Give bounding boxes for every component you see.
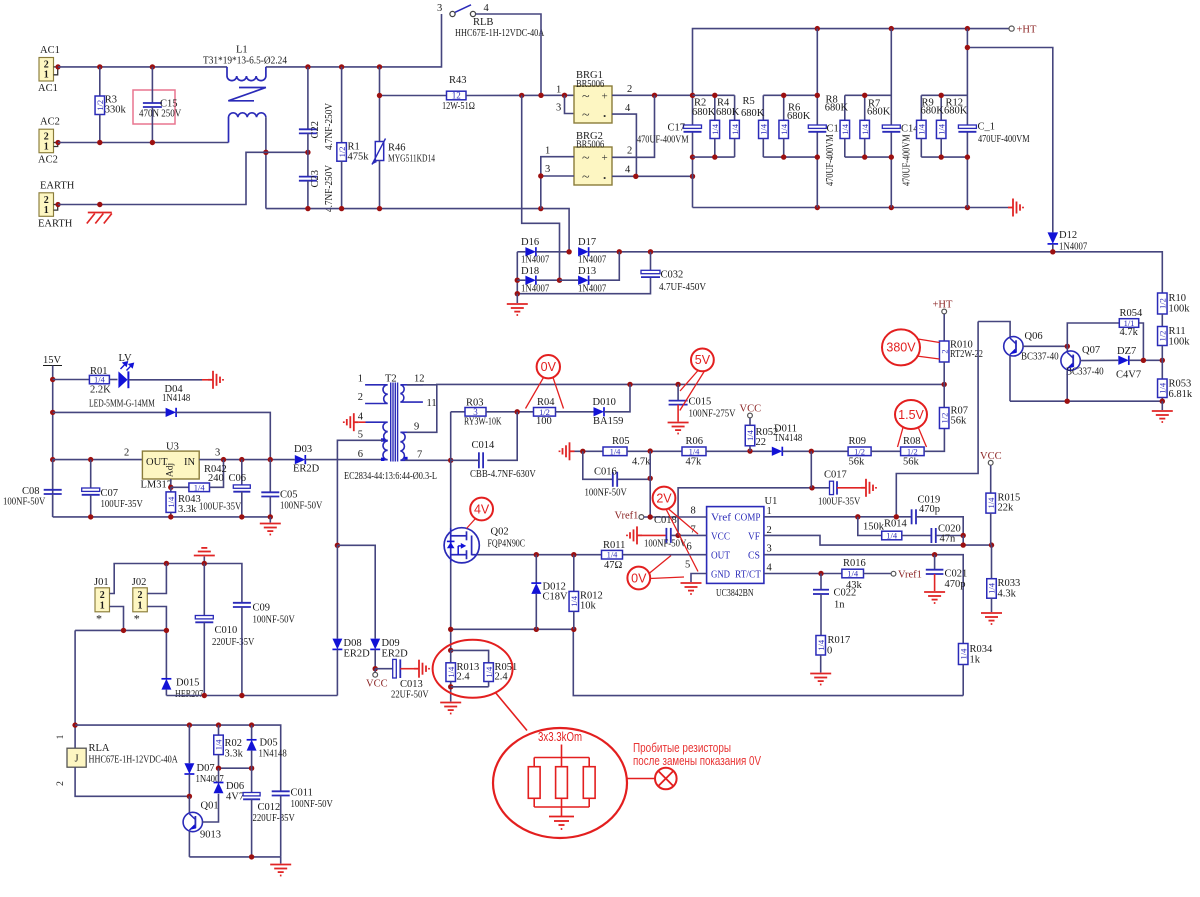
resistor R02: [218, 725, 220, 735]
resistor R07: [943, 384, 945, 407]
svg-text:FQP4N90C: FQP4N90C: [488, 538, 526, 549]
node row-R02: [216, 766, 221, 771]
node Q06b-Q07c: [1065, 344, 1070, 349]
svg-text:1/4: 1/4: [917, 123, 927, 135]
terminal +HT: [1009, 26, 1014, 31]
wire R02-D05 row: [219, 767, 252, 769]
node botrail-C13: [815, 205, 820, 210]
resistor R4: [734, 95, 736, 120]
svg-text:C015: C015: [689, 397, 712, 408]
svg-text:1/4: 1/4: [569, 595, 579, 607]
resistor R9a: [920, 95, 922, 120]
connector AC1: [39, 58, 54, 82]
svg-text:9: 9: [414, 422, 419, 433]
svg-text:7: 7: [417, 450, 422, 461]
wire 15V rail: [52, 366, 54, 517]
svg-text:R034: R034: [970, 644, 994, 655]
wire block top rail: [113, 564, 242, 603]
capacitor C13: [808, 125, 826, 128]
diode D04: [166, 408, 177, 417]
svg-text:+HT: +HT: [1017, 25, 1038, 36]
node C016-right: [648, 476, 653, 481]
svg-text:D18: D18: [521, 266, 539, 277]
resistor R051: [484, 663, 494, 682]
capacitor C016: [583, 451, 613, 479]
svg-text:4.7NF-250V: 4.7NF-250V: [324, 165, 335, 212]
wire AC1 rail: [58, 66, 227, 68]
capacitor C018: [666, 528, 670, 543]
node L1-jog: [263, 150, 268, 155]
svg-text:56k: 56k: [903, 457, 920, 468]
node VF-nodeX: [961, 542, 966, 547]
capacitor C032: [650, 252, 652, 270]
svg-text:VCC: VCC: [740, 404, 762, 415]
wire RLB to R43 node: [476, 14, 541, 95]
svg-text:0: 0: [827, 646, 832, 657]
node rail-R43: [377, 64, 382, 69]
diode D18: [517, 279, 525, 281]
svg-text:RLB: RLB: [473, 17, 493, 28]
svg-text:R014: R014: [884, 519, 908, 530]
diode D12: [1048, 232, 1059, 244]
resistor R033: [991, 545, 993, 579]
svg-text:R46: R46: [388, 143, 406, 154]
svg-text:AC2: AC2: [40, 117, 60, 128]
resistor R7a: [864, 95, 866, 120]
node R06-R052: [747, 448, 752, 453]
svg-text:11: 11: [427, 398, 437, 409]
wire sense bottom: [451, 686, 489, 688]
resistor R016: [842, 569, 864, 578]
resistor R10: [1158, 293, 1168, 314]
ground R05 left: [560, 442, 575, 460]
svg-text:C017: C017: [824, 470, 847, 481]
svg-text:Vref: Vref: [711, 513, 732, 524]
svg-text:после замены показания 0V: после замены показания 0V: [633, 754, 762, 768]
node row-D05: [249, 766, 254, 771]
svg-text:R11: R11: [1169, 326, 1186, 337]
svg-text:470p: 470p: [919, 504, 940, 515]
regulator U3 LM317: [142, 451, 199, 479]
node 0Vrow-R010: [942, 382, 947, 387]
node rail-R1: [339, 64, 344, 69]
svg-text:1/4: 1/4: [689, 446, 701, 456]
svg-text:D03: D03: [294, 444, 312, 455]
capacitor C013: [375, 668, 393, 670]
node R12-bot: [939, 154, 944, 159]
node C017-left: [809, 485, 814, 490]
svg-text:1/2: 1/2: [337, 147, 347, 158]
wire R054 net: [1067, 323, 1119, 346]
svg-text:1.5V: 1.5V: [898, 408, 924, 422]
node pin8-riser: [648, 514, 653, 519]
node C05-top: [268, 457, 273, 462]
diode D16: [517, 251, 525, 253]
svg-text:2.2K: 2.2K: [90, 385, 111, 396]
ground C018: [627, 526, 642, 544]
node R6-bot: [781, 154, 786, 159]
svg-text:VF: VF: [748, 532, 760, 543]
svg-text:R03: R03: [466, 398, 484, 409]
wire J01 pin1: [110, 607, 124, 631]
node D011-out: [809, 449, 814, 454]
svg-text:100k: 100k: [1169, 304, 1191, 315]
svg-text:4.7k: 4.7k: [1120, 327, 1139, 338]
svg-text:12: 12: [414, 374, 425, 385]
svg-text:Vref1: Vref1: [615, 511, 639, 522]
svg-text:EARTH: EARTH: [40, 180, 75, 191]
node C_1-mid-bot: [965, 154, 970, 159]
node C06-top: [239, 457, 244, 462]
capacitor C022: [820, 574, 822, 590]
node BRG14-join: [633, 174, 638, 179]
svg-text:1: 1: [767, 506, 772, 517]
ground R033: [981, 613, 1002, 624]
svg-text:6.81k: 6.81k: [1169, 389, 1193, 400]
diode D09: [370, 639, 380, 650]
wire RLA left riser: [74, 630, 76, 748]
resistor R1: [341, 67, 343, 143]
IC U1 UC3842BN: [707, 507, 764, 584]
node R43-jog: [519, 93, 524, 98]
capacitor C014: [479, 452, 483, 468]
svg-text:CS: CS: [748, 551, 760, 562]
connector J01: [95, 588, 110, 612]
node lineB-R46: [377, 206, 382, 211]
svg-text:VCC: VCC: [366, 679, 388, 690]
wire D04 row: [53, 411, 166, 413]
svg-text:HER207: HER207: [175, 689, 203, 700]
node bot-C07: [88, 514, 93, 519]
node C13-mid-top: [815, 93, 820, 98]
svg-text:C08: C08: [22, 486, 40, 497]
resistor R11: [1158, 327, 1168, 346]
svg-text:1N4007: 1N4007: [521, 284, 549, 295]
wire HT to D12: [967, 48, 1052, 233]
svg-text:3.3k: 3.3k: [178, 504, 197, 515]
wire block bottom rail: [166, 695, 337, 697]
diode D07: [188, 725, 190, 763]
svg-text:5: 5: [358, 430, 363, 441]
ground earth symbol: [87, 213, 112, 224]
svg-text:1/4: 1/4: [779, 123, 789, 135]
svg-text:5: 5: [685, 560, 690, 571]
resistor R3: [99, 67, 101, 96]
resistor R054: [1119, 319, 1138, 328]
capacitor C021: [934, 555, 936, 570]
node VF-R015: [989, 542, 994, 547]
connector AC2: [39, 129, 54, 153]
node sense-top: [448, 648, 453, 653]
node AC1-R3: [97, 64, 102, 69]
svg-text:D12: D12: [1059, 230, 1077, 241]
wire U3 adj: [170, 479, 172, 487]
wire Q02 source down: [450, 563, 452, 651]
wire J02 pin1: [147, 607, 166, 631]
annotation ellipse sense resistors: [433, 640, 513, 698]
capacitor C06: [241, 460, 243, 485]
bridge rectifier BRG2: [574, 147, 612, 185]
node R2-top: [712, 93, 717, 98]
svg-text:+: +: [602, 90, 608, 102]
node R6-top: [781, 93, 786, 98]
svg-text:1N4148: 1N4148: [162, 393, 190, 404]
node pin7-drain: [448, 458, 453, 463]
svg-text:L1: L1: [236, 45, 248, 56]
wire lineB AC2-filtered: [266, 209, 569, 252]
svg-text:C4V7: C4V7: [1116, 370, 1141, 381]
node R05-R06: [648, 448, 653, 453]
svg-text:J02: J02: [132, 577, 147, 588]
svg-text:1: 1: [138, 600, 143, 611]
svg-text:~: ~: [582, 170, 590, 185]
svg-text:475k: 475k: [348, 152, 370, 163]
capacitor C15: [133, 90, 175, 124]
ground relay block: [280, 857, 282, 864]
resistor R2: [714, 95, 716, 120]
terminal +HT mid: [942, 309, 947, 314]
resistor R5: [762, 95, 764, 120]
svg-text:Q01: Q01: [201, 801, 219, 812]
relay contact RLB: [450, 11, 455, 16]
svg-text:VCC: VCC: [980, 451, 1002, 462]
resistor R04: [534, 408, 556, 417]
svg-text:47k: 47k: [686, 457, 703, 468]
wire sense top: [451, 650, 489, 662]
svg-text:1/4: 1/4: [860, 123, 870, 135]
svg-text:1: 1: [100, 600, 105, 611]
zener D06: [214, 783, 224, 794]
wire BRG2 pins13 strap: [541, 157, 574, 209]
svg-text:1/4: 1/4: [816, 639, 826, 651]
svg-text:1/4: 1/4: [986, 497, 996, 509]
svg-text:100UF-35V: 100UF-35V: [101, 499, 144, 510]
wire D09 branch: [337, 545, 375, 638]
wire VCC riser to C017: [678, 488, 829, 536]
annotation lamp symbol: [627, 778, 655, 780]
capacitor C015: [677, 384, 679, 400]
svg-text:1: 1: [545, 146, 550, 157]
svg-text:1N4007: 1N4007: [578, 284, 606, 295]
svg-text:HHC67E-1H-12VDC-40A: HHC67E-1H-12VDC-40A: [455, 28, 545, 39]
wire emitter rail: [1010, 400, 1162, 402]
svg-text:3x3.3kOm: 3x3.3kOm: [538, 729, 582, 744]
wire CS row pin3: [764, 555, 963, 644]
wire R2R4 top: [693, 94, 735, 96]
resistor R08: [901, 447, 925, 456]
svg-text:C07: C07: [101, 488, 119, 499]
wire VF row pin2: [764, 535, 992, 545]
svg-text:1N4007: 1N4007: [578, 255, 606, 266]
svg-text:4: 4: [625, 103, 631, 114]
node 0Vrow-C015: [675, 382, 680, 387]
svg-text:2: 2: [56, 781, 66, 786]
node rail-D07: [187, 722, 192, 727]
svg-text:+HT: +HT: [933, 300, 954, 311]
node bot-R043: [168, 514, 173, 519]
svg-text:+: +: [602, 152, 608, 164]
svg-text:C_1: C_1: [978, 122, 996, 133]
svg-text:IN: IN: [184, 457, 195, 468]
resistor R05: [603, 447, 627, 456]
svg-text:680K: 680K: [787, 111, 811, 122]
node R042-up: [221, 457, 226, 462]
svg-text:1: 1: [56, 734, 66, 739]
svg-text:47n: 47n: [940, 534, 957, 545]
svg-text:C22: C22: [310, 121, 321, 139]
svg-text:U3: U3: [166, 441, 179, 452]
node R7a-bot: [862, 154, 867, 159]
node capbank-BRG: [690, 174, 695, 179]
svg-text:6: 6: [358, 449, 363, 460]
node mid-J01: [121, 628, 126, 633]
node OUT-D012: [534, 552, 539, 557]
wire 0V top row: [437, 383, 944, 385]
node R05-left: [580, 449, 585, 454]
resistor R034: [958, 644, 968, 665]
capacitor C010: [203, 564, 205, 616]
node 15V-main: [50, 457, 55, 462]
svg-text:100NF-275V: 100NF-275V: [689, 409, 736, 420]
svg-text:8: 8: [691, 506, 696, 517]
annotation 0V circle top: [537, 355, 560, 378]
svg-text:1/4: 1/4: [1158, 382, 1168, 394]
wire U3 out row: [199, 459, 295, 461]
svg-text:1: 1: [44, 70, 49, 81]
resistor R017: [816, 636, 826, 656]
wire OUT row pin6: [477, 554, 601, 556]
svg-text:C06: C06: [229, 473, 247, 484]
node rail-C22: [305, 64, 310, 69]
svg-text:R09: R09: [849, 436, 867, 447]
ground C013: [414, 660, 429, 678]
wire C17 rail: [692, 95, 694, 125]
resistor R052: [745, 425, 755, 446]
svg-text:1/4: 1/4: [886, 531, 898, 541]
node BRG2riser-top: [652, 93, 657, 98]
ground LED: [208, 371, 223, 389]
node rail-J02: [164, 561, 169, 566]
svg-text:22UF-50V: 22UF-50V: [391, 690, 429, 701]
capacitor C09: [233, 603, 251, 607]
capacitor C17: [684, 125, 702, 128]
svg-text:AC1: AC1: [40, 45, 60, 56]
node earth-gnd: [97, 202, 102, 207]
annotation 380V circle: [882, 329, 920, 365]
node R43-RLB: [538, 93, 543, 98]
svg-text:GND: GND: [711, 570, 730, 581]
svg-text:D09: D09: [382, 638, 400, 649]
svg-text:4: 4: [484, 3, 490, 14]
transformer T2 winding 9-7: [400, 432, 405, 460]
svg-text:1N4007: 1N4007: [1059, 242, 1087, 253]
svg-text:LV: LV: [119, 353, 132, 364]
node rail-C010: [202, 561, 207, 566]
svg-text:T31*19*13-6.5-Ø2.24: T31*19*13-6.5-Ø2.24: [203, 56, 288, 67]
wire CS sense return: [573, 629, 963, 695]
svg-text:470UF-400VM: 470UF-400VM: [637, 135, 689, 146]
svg-text:EC2834-44:13:6:44-Ø0.3-L: EC2834-44:13:6:44-Ø0.3-L: [344, 471, 437, 482]
svg-text:3.3k: 3.3k: [225, 749, 244, 760]
node jog-C22C23: [305, 150, 310, 155]
svg-text:Adj: Adj: [166, 463, 176, 477]
wire D16D18 anode strap: [516, 252, 518, 294]
svg-text:9013: 9013: [200, 830, 221, 841]
resistor R03: [450, 412, 452, 461]
svg-text:OUT: OUT: [711, 551, 731, 562]
svg-text:C010: C010: [215, 625, 238, 636]
svg-text:1n: 1n: [834, 600, 845, 611]
svg-text:J01: J01: [94, 577, 109, 588]
svg-text:AC2: AC2: [38, 155, 58, 166]
svg-text:1: 1: [358, 374, 363, 385]
wire R8R7 top: [845, 94, 892, 96]
terminal Vref1 left: [639, 515, 644, 520]
diode D015: [161, 679, 171, 690]
svg-text:4.7NF-250V: 4.7NF-250V: [324, 103, 335, 150]
capacitor C08: [52, 460, 54, 490]
wire R5R6 bottom: [763, 156, 817, 158]
svg-text:2: 2: [627, 84, 632, 95]
node lineB-BRG2: [538, 206, 543, 211]
node toprail-C13: [815, 26, 820, 31]
svg-text:.: .: [603, 105, 606, 120]
svg-text:ER2D: ER2D: [344, 649, 371, 660]
svg-text:C022: C022: [834, 588, 857, 599]
wire +HT top rail: [693, 29, 1010, 96]
transistor Q06: [1004, 337, 1023, 356]
ground D-block: [516, 294, 518, 303]
svg-text:15V: 15V: [43, 355, 62, 366]
annotation 1.5V circle: [895, 400, 927, 429]
wire Q06 base: [1023, 345, 1068, 347]
node C_1-HTtap: [965, 45, 970, 50]
svg-text:R06: R06: [686, 436, 704, 447]
wire R9R12 top: [921, 94, 967, 96]
node C17rail-R2bot: [690, 154, 695, 159]
node R12-top: [939, 93, 944, 98]
svg-text:BC337-40: BC337-40: [1021, 352, 1059, 363]
wire J02 pin2: [147, 564, 166, 594]
node RLA-pin1: [72, 722, 77, 727]
svg-text:DZ7: DZ7: [1117, 346, 1136, 357]
node AC2-C15: [150, 140, 155, 145]
svg-text:100NF-50V: 100NF-50V: [644, 539, 687, 550]
annotation 5V circle: [691, 349, 714, 372]
resistor R014: [882, 531, 902, 540]
node D17-D13riser: [617, 249, 622, 254]
wire AC2 rail: [58, 142, 229, 144]
svg-text:R017: R017: [828, 635, 851, 646]
wire Q07 emitter: [1066, 370, 1068, 401]
svg-text:100UF-35V: 100UF-35V: [199, 502, 242, 513]
svg-text:1N4148: 1N4148: [259, 749, 287, 760]
node BRG2-pin3: [538, 173, 543, 178]
wire L1 out rail: [266, 14, 442, 67]
node nodeX: [961, 533, 966, 538]
resistor R042: [171, 486, 189, 488]
ground capbank: [1008, 199, 1023, 217]
svg-text:3: 3: [437, 3, 442, 14]
wire T2 pin7 row: [405, 459, 451, 461]
svg-text:56k: 56k: [951, 416, 968, 427]
terminal VCC R052: [749, 418, 751, 425]
wire COMP row pin1: [764, 516, 912, 518]
svg-text:COMP: COMP: [735, 513, 761, 524]
diode DZ7: [1118, 356, 1129, 365]
svg-text:680K: 680K: [716, 107, 740, 118]
diode D17: [578, 247, 589, 256]
